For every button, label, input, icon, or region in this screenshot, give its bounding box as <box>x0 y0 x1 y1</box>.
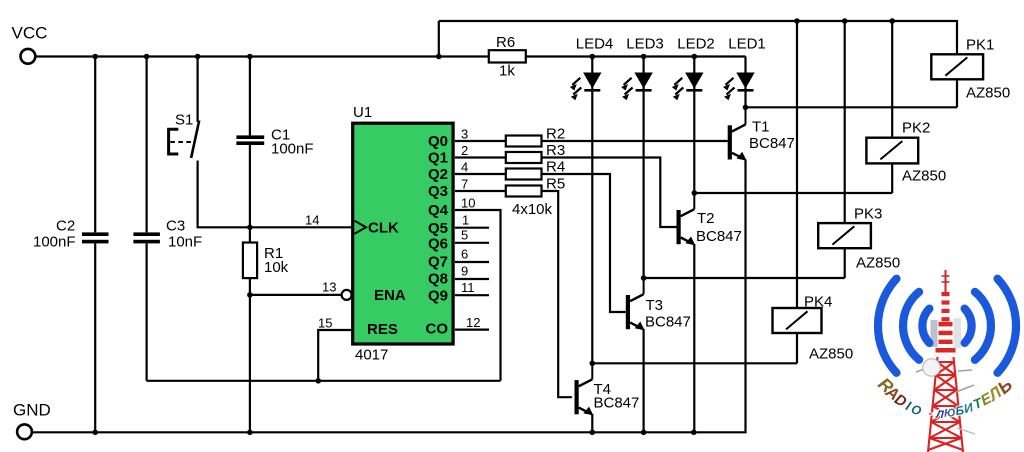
wire PK2 bottom <box>891 163 893 193</box>
wire pin6 stub <box>455 261 489 263</box>
wire Q0 pin3 to R2 <box>455 140 506 142</box>
relay PK4 <box>773 294 854 363</box>
svg-text:2: 2 <box>461 143 468 158</box>
svg-text:3: 3 <box>461 127 468 142</box>
svg-text:Q0: Q0 <box>428 133 448 150</box>
capacitor C1 <box>236 127 313 158</box>
transistor T3 <box>626 278 691 331</box>
wire C1 vertical <box>249 57 251 136</box>
wire jog up to top rail <box>438 21 440 57</box>
wire S1 top <box>197 57 199 123</box>
svg-text:Q2: Q2 <box>428 166 448 183</box>
svg-text:CO: CO <box>426 321 449 338</box>
wire PK4 bottom <box>796 333 798 363</box>
wire pin1 stub <box>455 227 489 229</box>
svg-text:10k: 10k <box>264 259 289 276</box>
svg-text:7: 7 <box>461 177 468 192</box>
wire LED4 cathode drop <box>591 57 593 364</box>
pin ENA bubble <box>342 290 352 300</box>
svg-text:LED4: LED4 <box>576 36 614 53</box>
svg-text:PK1: PK1 <box>966 37 994 54</box>
resistor R4 <box>506 169 542 180</box>
wire Q4 pin10 to RES net <box>455 210 501 381</box>
wire T1 collector row to PK1 <box>746 106 958 108</box>
svg-text:Q1: Q1 <box>428 150 448 167</box>
LED3 <box>621 36 664 101</box>
wire RES pin15 <box>318 330 351 381</box>
wire T2 collector row to PK2 <box>694 192 892 194</box>
svg-text:13: 13 <box>322 280 336 295</box>
svg-text:AZ850: AZ850 <box>856 255 900 272</box>
svg-text:C3: C3 <box>166 218 185 235</box>
wire Q2 pin4 to R4 <box>455 173 506 175</box>
wire pin12 CO stub <box>455 329 489 331</box>
wire LED1 cathode drop <box>744 57 746 108</box>
wire ENA pin13 <box>250 294 343 296</box>
svg-text:4017: 4017 <box>355 347 388 364</box>
transistor T1 <box>728 107 795 160</box>
svg-text:100nF: 100nF <box>271 141 314 158</box>
svg-text:12: 12 <box>466 315 480 330</box>
switch S1 <box>169 112 200 159</box>
svg-text:BC847: BC847 <box>749 135 795 152</box>
node VCC terminal <box>21 49 36 64</box>
capacitor C3 <box>133 218 202 251</box>
wire T3 emitter vertical <box>642 329 644 432</box>
wire R2 to T1 base <box>542 140 728 142</box>
logo tower <box>916 270 975 452</box>
svg-text:1: 1 <box>462 213 469 228</box>
svg-text:4: 4 <box>461 160 468 175</box>
wire VCC rail <box>35 55 488 57</box>
svg-text:U1: U1 <box>353 104 372 121</box>
svg-text:9: 9 <box>461 264 468 279</box>
node GND terminal <box>17 424 32 439</box>
wire PK4 top <box>796 21 798 308</box>
wire T4 emitter vertical <box>591 414 593 432</box>
wire C3 vertical <box>146 57 148 233</box>
wire T4 collector row to PK4 <box>592 362 797 364</box>
svg-text:C2: C2 <box>56 218 75 235</box>
svg-text:1k: 1k <box>499 63 515 80</box>
wire S1 bottom to CLK node <box>198 161 352 228</box>
svg-text:Q3: Q3 <box>428 183 448 200</box>
wire Q1 pin2 to R3 <box>455 156 506 158</box>
pin CLK triangle <box>355 221 366 234</box>
resistor R3 <box>506 152 542 163</box>
resistor R1 <box>243 243 289 279</box>
LED4 <box>570 36 613 101</box>
svg-text:LED1: LED1 <box>728 36 766 53</box>
wire LED2 cathode drop <box>693 57 695 194</box>
svg-text:14: 14 <box>305 213 319 228</box>
svg-text:Ю: Ю <box>944 407 956 420</box>
svg-text:BC847: BC847 <box>696 228 742 245</box>
svg-text:GND: GND <box>13 401 51 420</box>
svg-text:AZ850: AZ850 <box>809 346 853 363</box>
wire GND rail with T1 emitter <box>32 159 746 432</box>
svg-text:R6: R6 <box>496 34 515 51</box>
svg-text:PK3: PK3 <box>854 206 882 223</box>
wire LED anode rail <box>525 55 746 57</box>
svg-text:11: 11 <box>461 280 475 295</box>
wire PK3 bottom <box>844 248 846 278</box>
svg-text:PK4: PK4 <box>804 294 832 311</box>
svg-text:10nF: 10nF <box>168 234 202 251</box>
svg-text:R2: R2 <box>546 126 565 143</box>
capacitor C2 <box>33 218 109 251</box>
wire pin11 stub <box>455 294 489 296</box>
svg-text:RES: RES <box>367 321 398 338</box>
svg-text:BC847: BC847 <box>594 395 640 412</box>
wire PK3 top <box>844 21 846 223</box>
LED1 <box>723 36 766 101</box>
svg-text:Q4: Q4 <box>428 202 449 219</box>
svg-text:VCC: VCC <box>12 24 48 43</box>
svg-text:Q9: Q9 <box>428 288 448 305</box>
wire C2 vertical <box>94 57 96 233</box>
wire T2 emitter vertical <box>693 244 695 432</box>
svg-text:T1: T1 <box>752 119 770 136</box>
svg-text:PK2: PK2 <box>902 120 930 137</box>
svg-text:100nF: 100nF <box>33 234 76 251</box>
relay PK1 <box>931 37 1010 102</box>
wire pin5 stub <box>455 242 489 244</box>
transistor T2 <box>677 193 742 245</box>
svg-text:AZ850: AZ850 <box>966 85 1010 102</box>
svg-text:6: 6 <box>461 247 468 262</box>
svg-text:BC847: BC847 <box>645 314 691 331</box>
wire R5 to T4 base <box>542 191 572 397</box>
wire R3 to T2 base <box>542 158 678 228</box>
svg-text:Q8: Q8 <box>428 271 448 288</box>
svg-text:4x10k: 4x10k <box>512 201 553 218</box>
wire pin9 stub <box>455 278 489 280</box>
resistor R5 <box>506 186 542 197</box>
wire R1 bottom to GND <box>249 278 251 432</box>
relay PK3 <box>818 206 900 272</box>
svg-text:S1: S1 <box>175 112 193 129</box>
svg-text:CLK: CLK <box>368 220 399 237</box>
svg-text:R3: R3 <box>546 142 565 159</box>
svg-text:T2: T2 <box>697 210 715 227</box>
svg-text:T3: T3 <box>646 297 664 314</box>
svg-text:R4: R4 <box>546 159 565 176</box>
svg-text:10: 10 <box>461 196 475 211</box>
transistor T4 <box>575 363 640 415</box>
logo text RADIO-LYUBITEL <box>874 374 1016 421</box>
wire RES net horizontal <box>147 380 501 382</box>
wire PK1 bottom <box>956 79 958 107</box>
wire LED3 cathode drop <box>642 57 644 279</box>
wire T3 collector row to PK3 <box>644 277 845 279</box>
svg-text:Q6: Q6 <box>428 235 448 252</box>
svg-text:Q7: Q7 <box>428 254 448 271</box>
wire PK2 top <box>891 21 893 138</box>
resistor R6 <box>489 34 526 80</box>
svg-text:ENA: ENA <box>374 287 406 304</box>
svg-text:R5: R5 <box>546 176 565 193</box>
relay PK2 <box>866 120 946 185</box>
resistor R2 <box>506 136 542 147</box>
IC U1 4017 <box>305 104 480 364</box>
svg-text:15: 15 <box>318 316 332 331</box>
svg-text:LED3: LED3 <box>626 36 664 53</box>
LED2 <box>672 36 715 101</box>
svg-text:AZ850: AZ850 <box>902 168 946 185</box>
wire Q3 pin7 to R5 <box>455 190 506 192</box>
logo wifi arcs <box>878 279 1016 373</box>
wire top rail <box>439 21 957 54</box>
wire R4 to T3 base <box>542 174 626 312</box>
logo radio amateur <box>874 270 1016 452</box>
svg-text:LED2: LED2 <box>677 36 715 53</box>
svg-text:5: 5 <box>461 228 468 243</box>
